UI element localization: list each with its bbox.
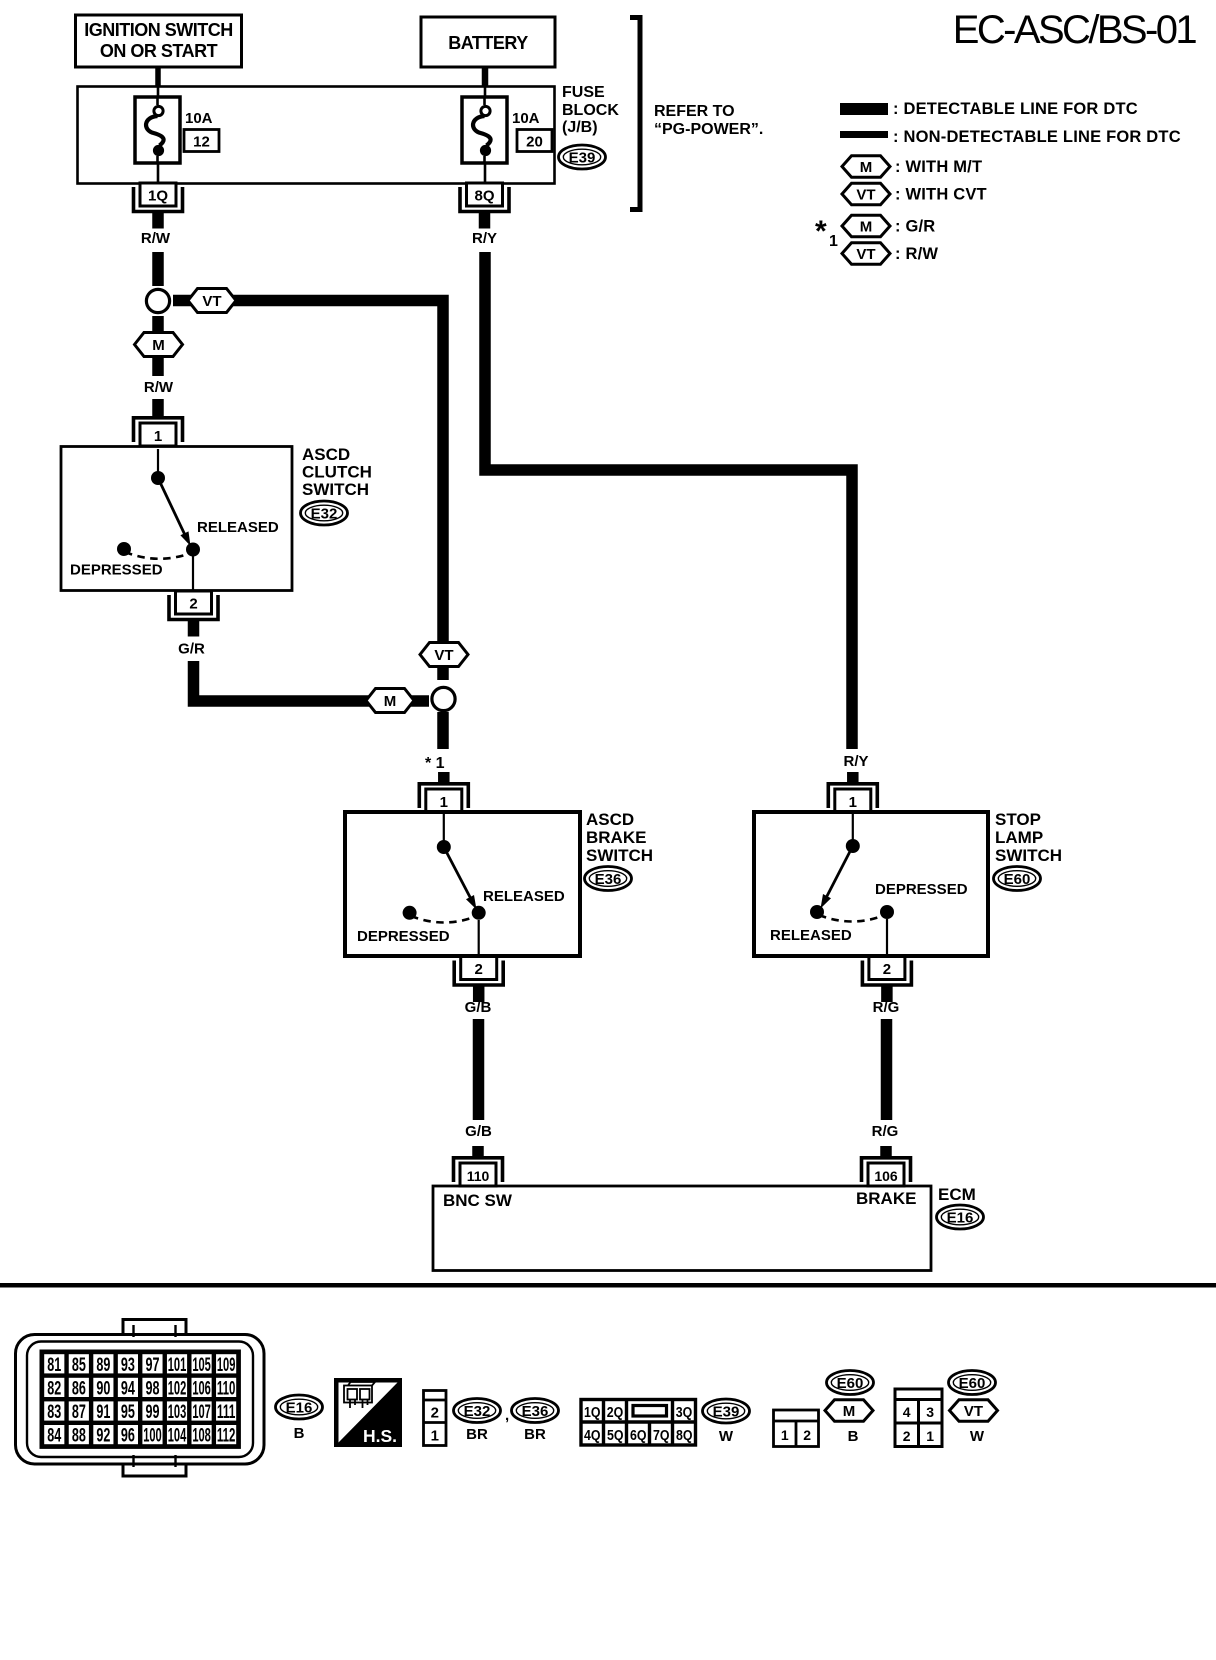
- svg-text:R/Y: R/Y: [843, 753, 868, 770]
- svg-text:ASCD: ASCD: [302, 445, 350, 464]
- svg-text:E36: E36: [595, 871, 622, 888]
- svg-text:E60: E60: [1004, 871, 1031, 888]
- svg-text:IGNITION SWITCH: IGNITION SWITCH: [84, 20, 233, 40]
- svg-text:8Q: 8Q: [676, 1428, 693, 1444]
- svg-text:STOP: STOP: [995, 810, 1041, 829]
- svg-text:81: 81: [47, 1355, 61, 1376]
- svg-text:87: 87: [72, 1402, 86, 1423]
- svg-text:W: W: [719, 1428, 734, 1445]
- svg-text:BRAKE: BRAKE: [856, 1189, 916, 1208]
- svg-text:88: 88: [72, 1426, 86, 1447]
- svg-text:RELEASED: RELEASED: [770, 927, 852, 944]
- svg-text:BNC SW: BNC SW: [443, 1191, 513, 1210]
- svg-text:5Q: 5Q: [607, 1428, 624, 1444]
- svg-text:* 1: * 1: [425, 755, 445, 772]
- svg-text:104: 104: [168, 1426, 187, 1447]
- svg-text:H.S.: H.S.: [363, 1426, 397, 1446]
- svg-text:FUSE: FUSE: [562, 84, 605, 101]
- svg-text:109: 109: [217, 1355, 236, 1376]
- svg-text:R/Y: R/Y: [472, 230, 497, 247]
- svg-text:6Q: 6Q: [630, 1428, 647, 1444]
- svg-text:E39: E39: [569, 150, 596, 167]
- svg-text:1: 1: [849, 794, 857, 811]
- svg-text:: NON-DETECTABLE LINE FOR DTC: : NON-DETECTABLE LINE FOR DTC: [893, 128, 1181, 146]
- svg-text:: G/R: : G/R: [895, 218, 935, 236]
- svg-text:R/G: R/G: [873, 999, 900, 1016]
- svg-text:1: 1: [926, 1428, 934, 1444]
- svg-text:10A: 10A: [185, 110, 213, 127]
- svg-text:SWITCH: SWITCH: [995, 846, 1062, 865]
- svg-text:97: 97: [145, 1355, 159, 1376]
- svg-text:ASCD: ASCD: [586, 810, 634, 829]
- svg-text:95: 95: [121, 1402, 135, 1423]
- svg-text:2Q: 2Q: [607, 1405, 624, 1421]
- svg-text:VT: VT: [202, 293, 221, 310]
- svg-text:85: 85: [72, 1355, 86, 1376]
- svg-text:M: M: [860, 159, 873, 176]
- svg-text:DEPRESSED: DEPRESSED: [357, 928, 450, 945]
- svg-text:4: 4: [903, 1404, 911, 1420]
- svg-text:VT: VT: [856, 246, 875, 263]
- svg-text:“PG-POWER”.: “PG-POWER”.: [654, 121, 763, 138]
- svg-text:REFER TO: REFER TO: [654, 103, 735, 120]
- svg-text:RELEASED: RELEASED: [197, 519, 279, 536]
- svg-text:E16: E16: [947, 1210, 974, 1227]
- svg-text:G/R: G/R: [178, 641, 205, 658]
- svg-text:VT: VT: [964, 1403, 983, 1420]
- svg-text:93: 93: [121, 1355, 135, 1376]
- svg-text:BR: BR: [466, 1426, 488, 1443]
- svg-text:106: 106: [874, 1168, 898, 1184]
- svg-text:LAMP: LAMP: [995, 828, 1043, 847]
- svg-text:E16: E16: [286, 1400, 313, 1417]
- svg-text:E39: E39: [713, 1404, 740, 1421]
- svg-text:1: 1: [440, 794, 448, 811]
- svg-text:1Q: 1Q: [148, 188, 168, 205]
- svg-text:E32: E32: [311, 506, 338, 523]
- svg-text:B: B: [294, 1425, 305, 1442]
- svg-text:112: 112: [217, 1426, 236, 1447]
- svg-text:M: M: [152, 337, 165, 354]
- svg-text:(J/B): (J/B): [562, 119, 598, 136]
- svg-text:102: 102: [168, 1378, 187, 1399]
- svg-text:3: 3: [926, 1404, 934, 1420]
- svg-text:M: M: [843, 1403, 856, 1420]
- svg-text:1Q: 1Q: [584, 1405, 601, 1421]
- svg-text:2: 2: [189, 596, 197, 613]
- svg-text:VT: VT: [856, 187, 875, 204]
- svg-text:: DETECTABLE LINE FOR DTC: : DETECTABLE LINE FOR DTC: [893, 100, 1138, 118]
- svg-text:110: 110: [217, 1378, 236, 1399]
- svg-text:106: 106: [192, 1378, 211, 1399]
- svg-text:12: 12: [193, 134, 210, 151]
- svg-text:1: 1: [829, 233, 838, 250]
- svg-text:107: 107: [192, 1402, 211, 1423]
- svg-text:SWITCH: SWITCH: [586, 846, 653, 865]
- svg-text:2: 2: [475, 961, 483, 978]
- svg-text:G/B: G/B: [465, 1123, 492, 1140]
- svg-text:R/W: R/W: [141, 230, 171, 247]
- svg-text:ON OR START: ON OR START: [100, 41, 218, 61]
- svg-text:101: 101: [168, 1355, 187, 1376]
- svg-text:R/W: R/W: [144, 379, 174, 396]
- svg-text:BR: BR: [524, 1426, 546, 1443]
- svg-text:VT: VT: [434, 647, 453, 664]
- svg-text:*: *: [815, 215, 827, 248]
- svg-text:B: B: [848, 1428, 859, 1445]
- svg-text:BRAKE: BRAKE: [586, 828, 646, 847]
- svg-text:98: 98: [145, 1378, 159, 1399]
- svg-text:96: 96: [121, 1426, 135, 1447]
- svg-text:BATTERY: BATTERY: [448, 33, 528, 53]
- svg-text:E32: E32: [464, 1403, 491, 1420]
- svg-text:RELEASED: RELEASED: [483, 888, 565, 905]
- svg-text:99: 99: [145, 1402, 159, 1423]
- svg-text:EC-ASC/BS-01: EC-ASC/BS-01: [953, 8, 1197, 52]
- svg-text:G/B: G/B: [465, 999, 492, 1016]
- svg-text:E36: E36: [522, 1403, 549, 1420]
- svg-text:110: 110: [467, 1168, 490, 1184]
- svg-text:E60: E60: [959, 1375, 986, 1392]
- svg-text:: WITH CVT: : WITH CVT: [895, 186, 987, 204]
- svg-text:,: ,: [505, 1407, 509, 1424]
- svg-text:E60: E60: [837, 1375, 864, 1392]
- svg-text:7Q: 7Q: [653, 1428, 670, 1444]
- svg-text:R/G: R/G: [872, 1123, 899, 1140]
- svg-text:111: 111: [217, 1402, 236, 1423]
- svg-text:M: M: [860, 219, 873, 236]
- svg-text:: R/W: : R/W: [895, 245, 938, 263]
- svg-text:90: 90: [96, 1378, 110, 1399]
- svg-text:91: 91: [96, 1402, 110, 1423]
- svg-text:8Q: 8Q: [474, 188, 494, 205]
- svg-text:83: 83: [47, 1402, 61, 1423]
- svg-text:2: 2: [431, 1405, 439, 1422]
- svg-text:SWITCH: SWITCH: [302, 480, 369, 499]
- svg-text:DEPRESSED: DEPRESSED: [70, 562, 163, 579]
- svg-text:105: 105: [192, 1355, 211, 1376]
- svg-text:: WITH M/T: : WITH M/T: [895, 158, 982, 176]
- svg-text:84: 84: [47, 1426, 61, 1447]
- svg-text:4Q: 4Q: [584, 1428, 601, 1444]
- svg-text:82: 82: [47, 1378, 61, 1399]
- svg-text:20: 20: [526, 134, 543, 151]
- svg-text:2: 2: [883, 961, 891, 978]
- svg-text:DEPRESSED: DEPRESSED: [875, 881, 968, 898]
- svg-text:1: 1: [781, 1427, 789, 1443]
- svg-text:100: 100: [143, 1426, 162, 1447]
- svg-text:CLUTCH: CLUTCH: [302, 463, 372, 482]
- svg-text:M: M: [384, 693, 397, 710]
- svg-text:10A: 10A: [512, 110, 540, 127]
- svg-text:ECM: ECM: [938, 1185, 976, 1204]
- svg-text:103: 103: [168, 1402, 187, 1423]
- svg-text:92: 92: [96, 1426, 110, 1447]
- svg-text:1: 1: [154, 428, 162, 445]
- svg-text:2: 2: [903, 1428, 911, 1444]
- svg-text:1: 1: [431, 1428, 439, 1445]
- svg-text:3Q: 3Q: [676, 1405, 693, 1421]
- svg-text:86: 86: [72, 1378, 86, 1399]
- svg-text:2: 2: [803, 1427, 811, 1443]
- svg-text:W: W: [970, 1428, 985, 1445]
- svg-text:89: 89: [96, 1355, 110, 1376]
- svg-text:BLOCK: BLOCK: [562, 102, 619, 119]
- svg-text:108: 108: [192, 1426, 211, 1447]
- svg-text:94: 94: [121, 1378, 135, 1399]
